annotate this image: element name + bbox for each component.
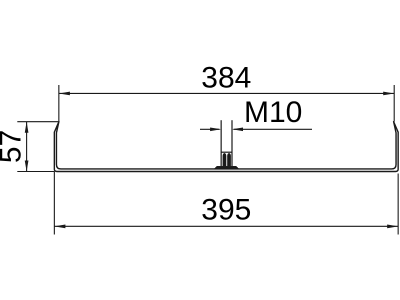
cover profile cross-section (sheet outline) [54,122,398,172]
stud thread shading [223,153,227,166]
dimension M10 : line with outside arrows [200,128,220,130]
svg-text:384: 384 [201,61,251,94]
dimension 395 : line [54,225,398,227]
stud M10 side lines / extension lines [220,120,222,166]
dimension 395 : extension lines [53,172,55,235]
dimension 57 : line [26,122,28,172]
stud top face [221,151,232,153]
dimension 384 : extension lines [58,85,60,122]
svg-text:57: 57 [0,130,28,163]
dimension 384 : line [59,92,394,94]
svg-text:M10: M10 [244,96,302,129]
dimension 57 : extension lines [17,121,58,123]
svg-text:395: 395 [201,194,251,227]
stud base flange (weld base) [214,166,239,169]
